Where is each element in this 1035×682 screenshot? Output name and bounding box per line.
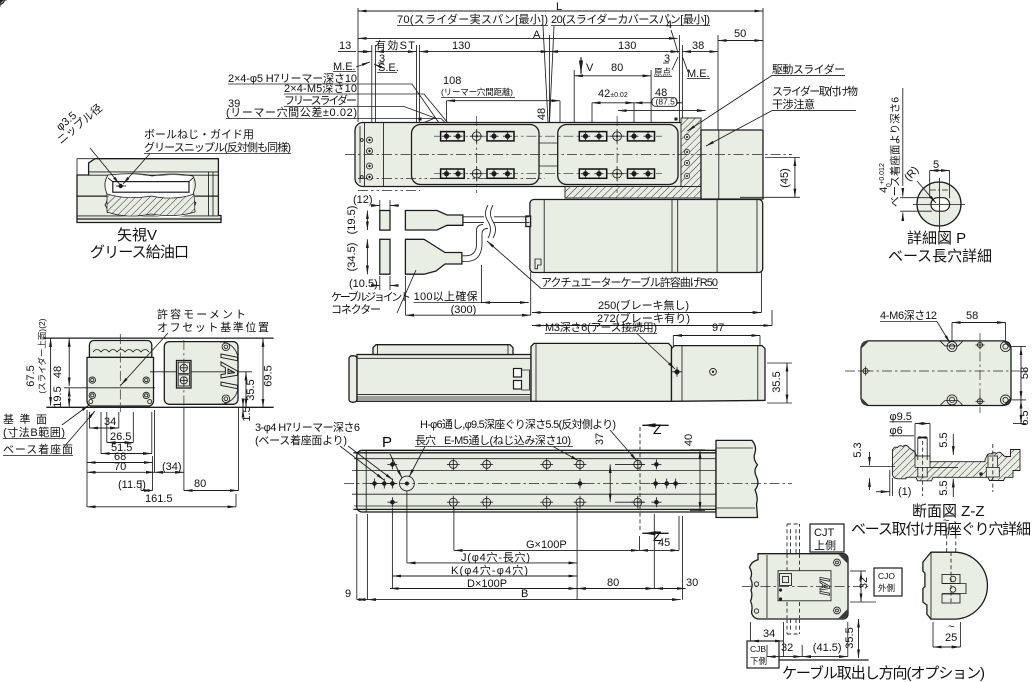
motor coupling housing top right xyxy=(701,130,763,199)
svg-text:φ6: φ6 xyxy=(890,425,903,437)
svg-text:(19.5): (19.5) xyxy=(346,206,358,235)
svg-text:130: 130 xyxy=(452,40,470,52)
plate screw holes xyxy=(0,0,653,178)
svg-text:5.5: 5.5 xyxy=(938,480,950,495)
58 right xyxy=(1019,367,1031,379)
svg-text:(12): (12) xyxy=(353,194,373,206)
CJO box xyxy=(874,568,902,596)
svg-text:(1): (1) xyxy=(898,486,911,498)
center ream holes with cross xyxy=(0,0,7,7)
svg-text:35.5: 35.5 xyxy=(245,379,257,400)
end block xyxy=(672,346,766,402)
grease channel xyxy=(113,182,189,193)
35.5 dim right xyxy=(771,371,783,392)
svg-text:P: P xyxy=(382,434,392,451)
svg-text:CJT: CJT xyxy=(814,527,834,539)
mounting plates slider1 xyxy=(441,132,655,179)
center row ream holes xyxy=(370,479,398,489)
svg-text:駆動スライダー: 駆動スライダー xyxy=(772,62,845,76)
counterbore hole right (phi6 top, phi9.5 bottom) xyxy=(988,456,998,467)
svg-text:CJO: CJO xyxy=(878,571,895,581)
motor cover xyxy=(531,343,672,401)
motor unit folded below xyxy=(530,200,763,273)
6.5 xyxy=(1019,410,1031,425)
svg-text:3-φ4 H7リーマー深さ6: 3-φ4 H7リーマー深さ6 xyxy=(255,421,360,434)
dim (19.5) xyxy=(346,206,358,235)
drive slider end screws xyxy=(684,134,689,139)
svg-text:37: 37 xyxy=(594,433,606,445)
centerline xyxy=(345,154,792,156)
svg-text:G×100P: G×100P xyxy=(526,539,567,551)
svg-text:80: 80 xyxy=(607,577,619,589)
connector on motor xyxy=(177,361,192,389)
left cap xyxy=(349,356,357,402)
svg-text:詳細図 P: 詳細図 P xyxy=(907,230,966,247)
(87.5) dim in bubble xyxy=(618,110,706,112)
nipple label rotated xyxy=(48,94,105,147)
svg-text:~: ~ xyxy=(948,621,954,633)
extension lines xyxy=(88,412,90,428)
counterbore hole left (phi9.5 top, phi6 through) xyxy=(915,456,930,467)
svg-text:M3深さ6(アース接続用): M3深さ6(アース接続用) xyxy=(545,320,657,334)
Z section marks xyxy=(639,427,641,532)
svg-text:108: 108 xyxy=(443,75,461,87)
svg-text:19.5: 19.5 xyxy=(52,386,64,407)
svg-text:2×4-M5深さ10: 2×4-M5深さ10 xyxy=(284,82,357,95)
svg-text:(リーマー穴間公差±0.02): (リーマー穴間公差±0.02) xyxy=(226,105,357,119)
interface clips xyxy=(514,369,522,378)
CJB box xyxy=(747,641,779,668)
svg-text:フリースライダー: フリースライダー xyxy=(284,93,357,107)
svg-text:スライダー取付け物: スライダー取付け物 xyxy=(772,84,858,98)
svg-text:32: 32 xyxy=(781,642,793,654)
slider cap top xyxy=(89,341,151,358)
motor block xyxy=(164,342,238,405)
slider 2 xyxy=(558,125,678,185)
right outer view xyxy=(923,552,988,619)
end cap screws xyxy=(367,137,373,143)
svg-text:25: 25 xyxy=(945,632,957,644)
svg-text:4-M6深さ12: 4-M6深さ12 xyxy=(880,309,937,322)
link between sliders xyxy=(539,142,558,144)
svg-text:30: 30 xyxy=(686,577,698,589)
dim 5.3 xyxy=(852,442,864,457)
svg-text:34: 34 xyxy=(763,628,775,640)
svg-text:(87.5): (87.5) xyxy=(656,97,678,107)
svg-text:ベース取付け用座ぐり穴詳細: ベース取付け用座ぐり穴詳細 xyxy=(851,521,1031,538)
svg-text:ベース長穴詳細: ベース長穴詳細 xyxy=(888,248,992,265)
35.5 dim xyxy=(844,627,856,648)
svg-text:67.5: 67.5 xyxy=(25,365,37,386)
svg-text:5.5: 5.5 xyxy=(938,432,950,447)
left rear view xyxy=(750,554,849,619)
extension lines down xyxy=(356,514,358,600)
svg-text:(41.5): (41.5) xyxy=(813,642,842,654)
hole rows xyxy=(0,0,6,6)
svg-text:ベース着座面: ベース着座面 xyxy=(3,442,73,456)
svg-text:グリース給油口: グリース給油口 xyxy=(90,244,189,261)
svg-text:φ9.5: φ9.5 xyxy=(890,411,912,423)
svg-text:32: 32 xyxy=(858,577,870,589)
svg-text:グリースニップル(反対側も同様): グリースニップル(反対側も同様) xyxy=(144,140,291,154)
svg-text:50: 50 xyxy=(734,28,746,40)
centerline xyxy=(344,483,792,485)
bottom hatched base band xyxy=(565,187,701,199)
37 dim xyxy=(594,433,606,445)
svg-text:V: V xyxy=(586,62,594,74)
svg-text:40: 40 xyxy=(683,434,695,446)
svg-text:9: 9 xyxy=(345,588,351,600)
plate row centerlines xyxy=(434,135,662,137)
break mark xyxy=(486,205,496,238)
svg-text:45: 45 xyxy=(658,537,670,549)
hole centerlines xyxy=(922,441,924,496)
svg-text:34: 34 xyxy=(104,416,116,428)
svg-text:許容モーメント: 許容モーメント xyxy=(157,307,246,321)
dim 5.5 lower xyxy=(938,480,950,495)
base seat line xyxy=(47,406,273,408)
left end cap inner lines xyxy=(359,126,361,183)
rail body xyxy=(357,355,531,402)
40 dim xyxy=(683,434,695,446)
slider main block xyxy=(87,357,154,406)
svg-text:H-φ6通し,φ9.5深座ぐり深さ5.5(反対側より): H-φ6通し,φ9.5深座ぐり深さ5.5(反対側より) xyxy=(420,417,616,431)
32 right dim xyxy=(858,577,870,589)
svg-text:70: 70 xyxy=(114,461,126,473)
slider saddle xyxy=(373,345,513,355)
svg-text:(10.5): (10.5) xyxy=(349,278,378,290)
svg-text:ボールねじ・ガイド用: ボールねじ・ガイド用 xyxy=(144,128,254,141)
svg-text:130: 130 xyxy=(618,40,636,52)
svg-text:70(スライダー実スパン[最小]): 70(スライダー実スパン[最小]) xyxy=(397,12,548,26)
svg-text:(11.5): (11.5) xyxy=(118,479,146,491)
IAI logo xyxy=(215,354,242,391)
vertical hatched interference band xyxy=(681,118,701,187)
svg-text:(寸法B範囲): (寸法B範囲) xyxy=(3,425,65,439)
svg-text:長穴: 長穴 xyxy=(415,433,436,447)
svg-text:Z: Z xyxy=(653,421,662,437)
svg-text:(ベース着座面より): (ベース着座面より) xyxy=(255,433,347,447)
svg-text:原点: 原点 xyxy=(654,67,672,77)
svg-text:(スライダー上面)(2): (スライダー上面)(2) xyxy=(37,318,47,393)
svg-text:ベース着座面より深さ6: ベース着座面より深さ6 xyxy=(889,97,902,207)
svg-text:有効ST: 有効ST xyxy=(375,38,415,52)
nipple xyxy=(119,184,123,188)
svg-text:ケーブルジョイント: ケーブルジョイント xyxy=(331,290,411,304)
svg-text:J(φ4穴-長穴): J(φ4穴-長穴) xyxy=(461,550,530,564)
CJT box xyxy=(810,524,844,552)
slider 1 xyxy=(412,125,540,185)
extension lines top xyxy=(371,45,373,122)
svg-text:(34.5): (34.5) xyxy=(346,243,358,272)
svg-text:(300): (300) xyxy=(451,304,477,316)
svg-text:(リーマー穴間距離): (リーマー穴間距離) xyxy=(441,87,513,97)
svg-text:外側: 外側 xyxy=(878,583,895,593)
svg-text:K(φ4穴-φ4穴): K(φ4穴-φ4穴) xyxy=(451,563,528,577)
wavy cavity xyxy=(105,174,196,213)
svg-text:オフセット基準位置: オフセット基準位置 xyxy=(157,320,269,334)
svg-text:~: ~ xyxy=(943,515,949,527)
svg-text:CJB: CJB xyxy=(750,644,766,654)
base cross-section hatched profile xyxy=(892,445,1020,481)
svg-text:35.5: 35.5 xyxy=(771,371,783,392)
svg-text:38: 38 xyxy=(692,40,704,52)
right wide block with break xyxy=(716,440,758,517)
svg-text:下側: 下側 xyxy=(750,656,767,666)
svg-text:80: 80 xyxy=(194,478,206,490)
svg-text:4: 4 xyxy=(666,19,672,31)
svg-text:干渉注意: 干渉注意 xyxy=(772,97,815,111)
svg-text:アクチュエーターケーブル許容曲げR50: アクチュエーターケーブル許容曲げR50 xyxy=(541,275,718,289)
reference top line xyxy=(44,337,273,339)
svg-text:80: 80 xyxy=(611,62,623,74)
cavity white region xyxy=(105,174,195,217)
(R) leader xyxy=(902,164,921,183)
svg-text:E-M5通し(ねじ込み深さ10): E-M5通し(ねじ込み深さ10) xyxy=(444,434,571,447)
cables xyxy=(463,217,530,223)
svg-text:コネクター: コネクター xyxy=(331,303,381,316)
svg-text:20(スライダーカバースパン[最小]): 20(スライダーカバースパン[最小]) xyxy=(551,12,710,26)
hatch inside cavity xyxy=(107,194,195,216)
dashed cables top/bottom xyxy=(786,524,788,553)
connector blocks xyxy=(380,211,390,231)
svg-text:250(ブレーキ無し): 250(ブレーキ無し) xyxy=(598,298,689,312)
block outline xyxy=(77,159,221,223)
leaders into slider1 xyxy=(357,84,446,133)
svg-text:58: 58 xyxy=(966,310,978,322)
svg-text:5.3: 5.3 xyxy=(852,442,864,457)
svg-text:A: A xyxy=(533,29,541,41)
base plate xyxy=(357,450,716,512)
svg-text:B: B xyxy=(521,588,528,600)
svg-text:IAI: IAI xyxy=(215,354,242,391)
(45) vertical dim at motor right xyxy=(779,168,791,188)
datum dots xyxy=(419,118,422,121)
svg-text:48: 48 xyxy=(536,108,548,120)
svg-text:5: 5 xyxy=(933,159,939,171)
svg-text:69.5: 69.5 xyxy=(263,365,275,386)
svg-text:100以上確保: 100以上確保 xyxy=(414,289,478,303)
svg-text:13: 13 xyxy=(339,40,351,52)
svg-text:基準面: 基準面 xyxy=(3,412,47,426)
svg-text:48: 48 xyxy=(52,366,64,378)
leader from span labels xyxy=(543,26,548,122)
svg-text:(45): (45) xyxy=(779,168,791,188)
lower cable bend xyxy=(462,225,488,262)
4 tolerance rotated xyxy=(878,163,893,193)
stroke phantom line xyxy=(358,178,545,180)
main body outline xyxy=(355,123,682,187)
dim 5.5 upper xyxy=(938,432,950,447)
svg-text:上側: 上側 xyxy=(814,539,836,552)
svg-text:35.5: 35.5 xyxy=(844,627,856,648)
svg-text:(34): (34) xyxy=(162,461,182,473)
left dims xyxy=(25,365,37,386)
svg-text:矢視V: 矢視V xyxy=(117,227,157,244)
svg-text:161.5: 161.5 xyxy=(145,493,173,505)
svg-text:97: 97 xyxy=(712,322,724,334)
right dims 69.5 35.5 1.5 xyxy=(263,365,275,386)
dim (34.5) xyxy=(346,243,358,272)
svg-text:ケーブル取出し方向(オプション): ケーブル取出し方向(オプション) xyxy=(782,664,985,682)
